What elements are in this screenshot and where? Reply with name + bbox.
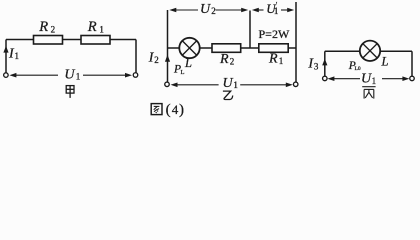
svg-text:4: 4	[172, 102, 179, 117]
wire: circuit jia right wire	[135, 40, 137, 73]
label yi (CJK drawn)	[223, 91, 233, 99]
terminal (jia left)	[4, 73, 8, 78]
label PL (lamp power)	[173, 63, 185, 76]
dimension U1' (yi top-right)	[258, 9, 289, 11]
svg-text:1: 1	[15, 51, 20, 61]
terminal (yi right)	[293, 82, 298, 87]
wire: yi right vertical	[295, 2, 297, 83]
resistor R1 (jia)	[81, 36, 110, 45]
svg-text:2: 2	[211, 6, 216, 16]
dimension U1 (bing)	[333, 78, 405, 80]
terminal (jia right)	[133, 73, 138, 78]
current arrow I1	[3, 46, 8, 53]
current arrow I3	[322, 59, 327, 66]
label PL0	[348, 60, 361, 72]
terminal (yi left)	[165, 82, 170, 87]
svg-text:L: L	[181, 69, 185, 76]
svg-text:R: R	[87, 19, 97, 35]
svg-text:1: 1	[76, 72, 81, 82]
label jia (CJK drawn)	[66, 86, 74, 98]
wire: yi left vertical (dim boundary + circuit)	[167, 10, 169, 83]
svg-text:L: L	[184, 56, 192, 70]
terminal (bing right)	[410, 76, 415, 81]
label R1 (yi)	[268, 51, 283, 66]
svg-text:P=2W: P=2W	[259, 27, 290, 41]
caption (4)	[166, 102, 184, 118]
dimension U1 (jia)	[15, 74, 127, 76]
resistor R2 (yi)	[212, 44, 241, 53]
lamp L (yi)	[179, 38, 199, 58]
svg-text:1: 1	[233, 80, 238, 90]
label R2 (yi)	[219, 52, 234, 67]
svg-text:R: R	[38, 19, 48, 35]
label R2 (jia)	[38, 19, 55, 35]
lamp L (bing)	[360, 41, 380, 61]
dimension U2 (yi top-left)	[175, 9, 242, 11]
svg-text:1: 1	[372, 76, 377, 86]
svg-text:L: L	[381, 55, 389, 69]
wire: yi horizontal component wire	[168, 47, 297, 49]
wire: bing right vertical	[411, 51, 413, 76]
svg-text:R: R	[268, 51, 278, 66]
svg-text:2: 2	[230, 56, 235, 66]
svg-text:U: U	[223, 76, 234, 91]
svg-text:2: 2	[51, 24, 56, 34]
svg-text:1: 1	[279, 56, 284, 66]
svg-text:R: R	[219, 52, 229, 67]
svg-text:U: U	[200, 2, 211, 17]
dimension U1 (yi bottom)	[176, 84, 287, 86]
svg-text:U: U	[361, 71, 372, 86]
svg-text:U: U	[64, 68, 75, 83]
svg-text:1: 1	[99, 24, 104, 34]
label R1 (jia)	[87, 19, 104, 35]
wire: circuit jia left wire	[5, 40, 7, 73]
resistor R1 (yi)	[259, 44, 288, 53]
wire: bing left vertical	[324, 51, 326, 76]
label bing (CJK drawn)	[362, 87, 375, 99]
caption tu (CJK drawn)	[151, 104, 162, 115]
svg-text:): )	[179, 102, 184, 118]
terminal (bing left)	[323, 76, 328, 81]
resistor R2 (jia)	[34, 36, 63, 45]
wire: bing top wire	[325, 50, 412, 52]
svg-text:2: 2	[154, 55, 159, 65]
current arrow I2	[165, 55, 170, 62]
svg-text:(: (	[166, 102, 171, 118]
wire: circuit jia top wire	[6, 39, 136, 41]
svg-text:3: 3	[314, 62, 319, 72]
svg-text:L0: L0	[355, 66, 361, 72]
wire: tick between R2 and R1 up to dim line	[249, 11, 251, 49]
